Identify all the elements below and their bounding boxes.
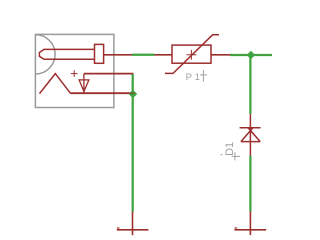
wire: diode D1 down to right ground (249, 156, 251, 212)
wire: right junction down to diode D1 (249, 55, 251, 114)
ground (right) bar (235, 229, 267, 231)
module U1 spring zigzag (40, 74, 71, 94)
potentiometer P1 diagonal with bent ends (165, 35, 219, 74)
P1 center pin marker + (187, 50, 197, 60)
label D1 anchor dagger (rotated) (232, 152, 240, 160)
ground (right) stem (249, 211, 251, 235)
diode D1 triangle (extended sides) (241, 128, 260, 142)
diode D1 lead line (249, 114, 251, 156)
diode D1 cathode bar (240, 127, 261, 129)
ground (left) bar (117, 229, 149, 231)
module U1 plunger bar (39, 49, 94, 59)
ground (left) end tick (117, 227, 120, 229)
module U1 wiper arrow stem (83, 74, 85, 94)
pin marker + inside module (71, 70, 78, 77)
pin over junction (dark overlap) (129, 92, 135, 94)
module U1 outline box (35, 34, 114, 107)
pin: P1 right (211, 54, 231, 56)
potentiometer P1 body (172, 45, 211, 63)
pin: P1 left (154, 54, 172, 56)
label D1 leading dot (221, 154, 222, 155)
pin: module plunger output (104, 54, 133, 56)
svg-text:D1: D1 (224, 142, 236, 156)
svg-text:P1: P1 (186, 72, 203, 83)
junction node (right) (247, 51, 256, 60)
module U1 plunger cap rectangle (95, 44, 104, 63)
wire: module output to P1 (132, 54, 155, 56)
label P1 anchor dagger (200, 70, 207, 81)
ground (left) stem (132, 211, 134, 235)
wire: wiper corner down to junction (132, 74, 134, 94)
wire: P1 to right junction and on to right edge (230, 54, 272, 56)
wire: junction down to left ground (132, 94, 134, 211)
pin: module wiper output (84, 73, 133, 75)
module U1 bell arc (35, 35, 55, 74)
junction node (left) (129, 90, 138, 99)
module U1 wiper arrow head (open triangle) (79, 80, 89, 92)
pin: module spring/bottom output (70, 92, 135, 94)
ground (right) end tick (235, 227, 238, 229)
